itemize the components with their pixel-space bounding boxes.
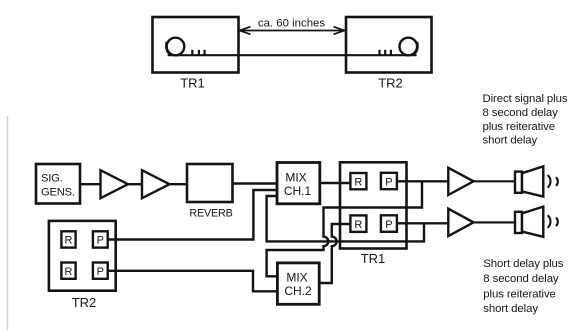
wire mix ch.2 to record head R of TR1 channel 2 (with hop over crossing) <box>319 224 350 283</box>
record head R, TR1 channel 2 <box>350 215 366 232</box>
svg-text:R: R <box>354 176 362 188</box>
amplifier A2 <box>142 170 170 198</box>
svg-text:R: R <box>354 219 362 231</box>
svg-text:MIX: MIX <box>286 271 307 285</box>
svg-text:MIX: MIX <box>285 171 306 185</box>
wire feedback from P ch1 line down through TR1 to mixer MIX CH.2 (with hop over crossing) <box>267 181 422 276</box>
record head R, TR2 channel 2 <box>61 263 75 279</box>
wire mix ch.1 to record head R of TR1 channel 1 <box>320 182 351 184</box>
tape recorder TR1 (top view) <box>153 17 239 73</box>
svg-text:SIG.: SIG. <box>41 173 63 185</box>
tape wrap curl TR1 <box>166 42 172 55</box>
svg-text:CH.1: CH.1 <box>284 184 312 198</box>
reel in TR1 <box>167 38 185 56</box>
reel in TR2 <box>400 38 418 56</box>
wire TR2 playback P ch2 to mixer MIX CH.2 <box>108 271 278 292</box>
wire amplifier A4 to speaker 2 <box>474 221 516 223</box>
playback head P, TR2 channel 2 <box>93 263 108 279</box>
svg-text:TR1: TR1 <box>361 251 386 266</box>
svg-text:P: P <box>97 235 104 247</box>
wire reverb to mixer MIX CH.1 <box>233 182 278 184</box>
playback head P, TR2 channel 1 <box>93 231 108 247</box>
svg-text:P: P <box>385 176 392 188</box>
playback head P, TR1 channel 2 <box>381 215 397 232</box>
signal generators box SIG. GENS. <box>36 164 80 204</box>
svg-text:TR1: TR1 <box>180 76 205 91</box>
wire playback head P ch2 to amplifier A4 <box>397 222 448 224</box>
tape recorder TR2 (top view) <box>346 17 432 73</box>
sound waves LS2 <box>548 215 558 228</box>
svg-text:R: R <box>65 235 73 247</box>
speaker LS1 <box>515 166 543 196</box>
svg-text:TR2: TR2 <box>378 76 403 91</box>
wire amplifier A2 to reverb <box>170 183 188 185</box>
mixer MIX CH.2 <box>277 263 319 304</box>
tape recorder TR1 (bottom diagram) <box>340 162 407 248</box>
wire feedback from P ch2 line down through TR1 back to mixer MIX CH.1 <box>267 196 424 241</box>
amplifier A4 <box>448 209 473 236</box>
wire playback head P ch1 to amplifier A3 <box>397 180 448 182</box>
amplifier A1 <box>101 170 129 198</box>
record head R, TR1 channel 1 <box>350 173 366 189</box>
wire amplifier A3 to speaker 1 <box>474 180 516 182</box>
amplifier A3 <box>448 168 473 195</box>
dimension arrow between recorders <box>240 27 345 35</box>
tape guides TR1 <box>192 50 204 56</box>
svg-text:ca. 60 inches: ca. 60 inches <box>258 18 325 30</box>
svg-text:P: P <box>385 219 392 231</box>
playback head P, TR1 channel 1 <box>381 173 397 189</box>
tape recorder TR2 (bottom diagram) <box>49 221 116 291</box>
svg-text:R: R <box>65 266 73 278</box>
svg-text:GENS.: GENS. <box>41 187 75 199</box>
wire sig.gens. to amplifier A1 <box>80 183 101 185</box>
svg-text:CH.2: CH.2 <box>284 284 312 298</box>
tape guides TR2 <box>380 50 391 56</box>
wire amplifier A1 to A2 <box>128 183 142 185</box>
wire TR2 playback P ch1 to mixer MIX CH.1 <box>108 190 277 240</box>
reverb unit box <box>187 164 233 202</box>
record head R, TR2 channel 1 <box>61 231 75 247</box>
wire tape path TR1 to TR2 <box>168 54 417 56</box>
sound waves LS1 <box>548 175 558 188</box>
speaker LS2 <box>515 207 543 237</box>
page edge shadow line <box>7 116 9 330</box>
mixer MIX CH.1 <box>277 163 320 204</box>
svg-text:REVERB: REVERB <box>189 208 232 220</box>
svg-text:P: P <box>97 266 104 278</box>
tape wrap curl TR2 <box>412 42 418 55</box>
svg-text:TR2: TR2 <box>72 295 97 310</box>
